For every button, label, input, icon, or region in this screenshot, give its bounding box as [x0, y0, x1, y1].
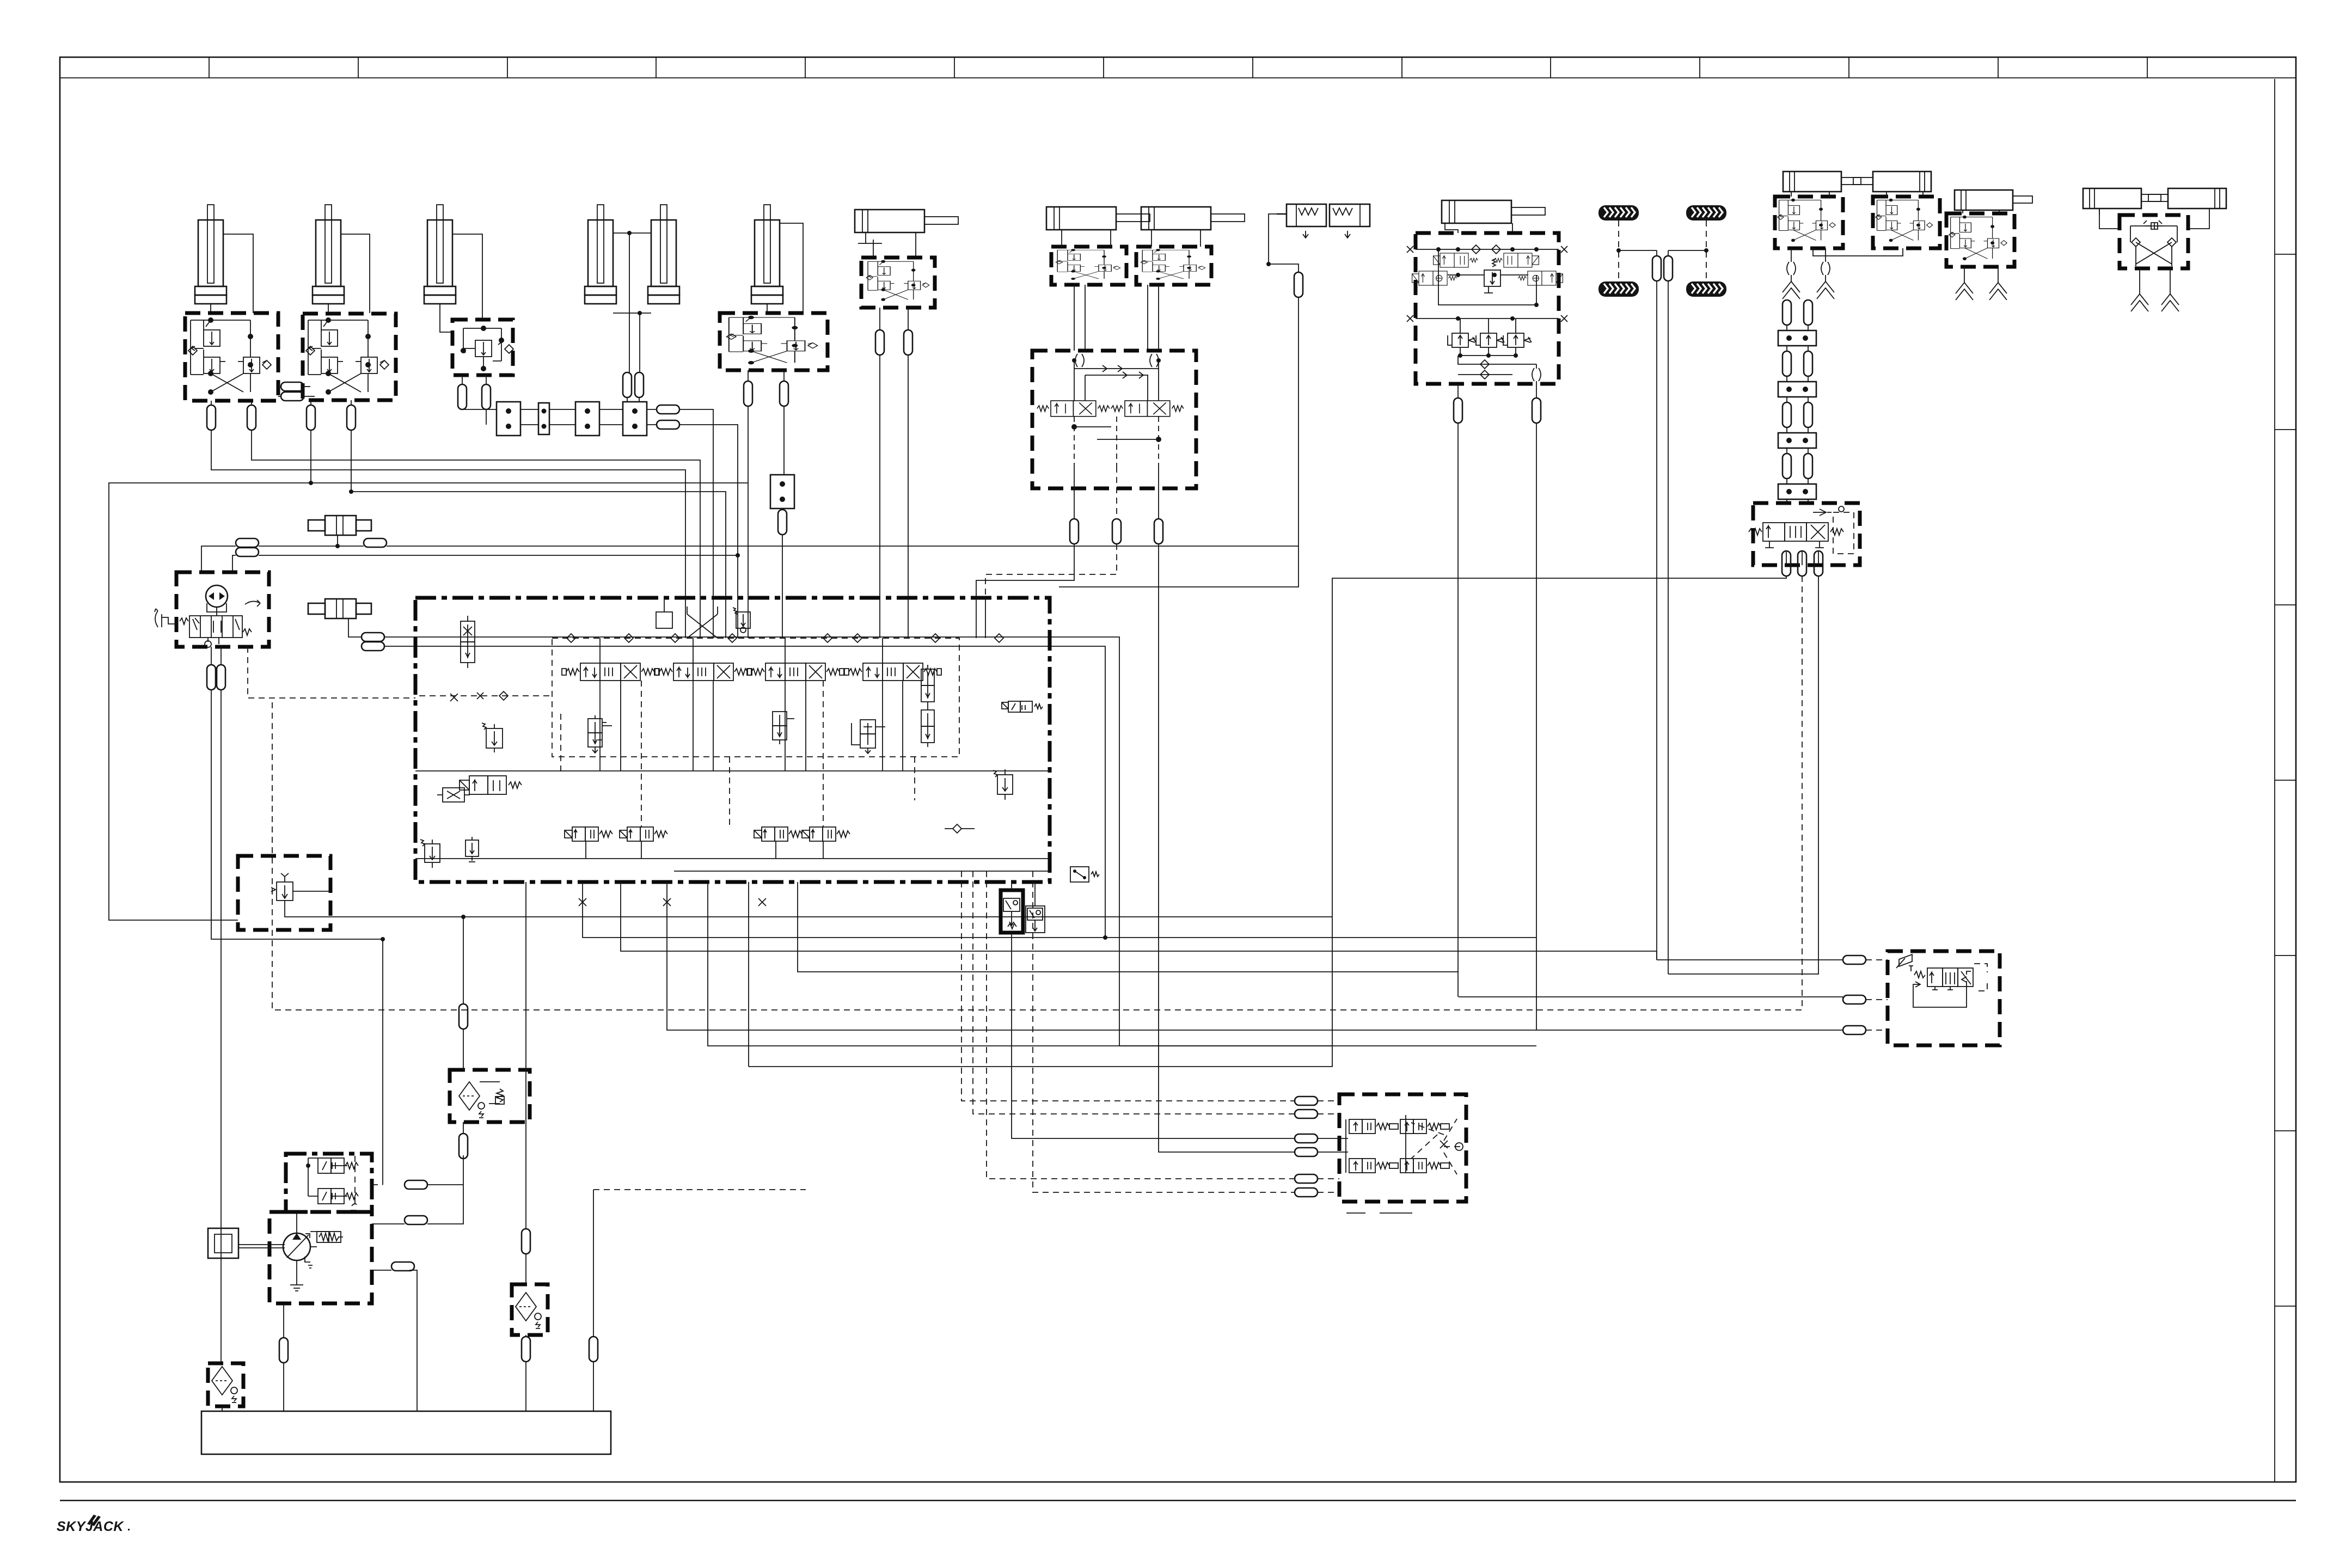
wire orbital drops: [211, 690, 383, 939]
valve block VB: [1946, 213, 2014, 267]
manifold top fittings: [656, 612, 672, 628]
pump unit B_PUMP: [269, 1212, 372, 1303]
wire B_SB drops: [1457, 423, 1459, 997]
pilot bus with check diamonds: [552, 638, 959, 639]
proportional relief left: [482, 723, 503, 752]
junction blocks row under C3/C4: [497, 402, 520, 436]
platform cylinder P1: [308, 516, 371, 535]
valve SB-2: [1494, 253, 1539, 267]
pressure reducer SB-B: [1476, 333, 1504, 347]
valve block VA2: [1873, 197, 1940, 248]
relief lower-left B: [465, 837, 479, 862]
wire SB top bus: [1407, 246, 1567, 253]
long wire runs: [583, 882, 1536, 938]
wire filter drop: [463, 1029, 464, 1070]
wire A cyl to valves: [1791, 192, 1792, 197]
main function valve MV1: [562, 663, 659, 681]
right zone strip: [2274, 79, 2275, 1482]
tire W3: [1598, 281, 1639, 297]
test/lowering valve box B_TEST: [286, 1154, 372, 1212]
wire P1 ports: [337, 535, 338, 546]
small solenoid valve SV-A: [565, 827, 612, 841]
tire W4: [1686, 281, 1726, 297]
wire brake feed: [1269, 214, 1298, 272]
hoses under VH1: [875, 330, 884, 355]
cylinder C3: [424, 205, 456, 304]
wire H1 ports: [873, 240, 874, 258]
inner pilot box: [552, 638, 959, 757]
wires H2/H3 to valves: [1061, 230, 1062, 247]
entry drops inside manifold: [685, 598, 686, 638]
sub element under MV2: [773, 712, 794, 744]
valve VC interior crossover: [2130, 220, 2177, 266]
reservoir tank: [201, 1411, 611, 1454]
wire right return: [593, 1189, 806, 1190]
wire emergency feed: [382, 939, 383, 1185]
flow control B_FLOW: [1888, 951, 2000, 1045]
hoses under V1: [207, 405, 216, 430]
hose brake line: [1294, 272, 1303, 297]
main function valve MV4: [844, 663, 941, 681]
orbital steering unit B_ORB: [176, 572, 269, 647]
hoses under orbital: [207, 665, 216, 690]
wire C5 ports: [780, 223, 803, 313]
transfer chain hoses/blocks: [1783, 300, 1791, 325]
brake cylinder BC1: [1277, 204, 1326, 238]
valve block V5 (dual counterbalance): [720, 313, 828, 370]
wire platform feed lines: [259, 546, 364, 547]
wire flow valve mid/bottom: [1459, 996, 1843, 997]
pilot wires to rotator: [961, 871, 1295, 1101]
axle lockout manifold B_AX: [1032, 351, 1196, 488]
hoses under B_SB: [1454, 398, 1462, 423]
valve block V2 (dual counterbalance): [303, 314, 396, 400]
hoses P2 lines: [362, 633, 384, 641]
valve block V1 (dual counterbalance): [185, 313, 278, 401]
cushion valve B_CUSH: [1001, 890, 1023, 933]
central manifold B_MAIN: [415, 598, 1050, 882]
wire emer out: [285, 901, 1332, 917]
hoses under B_J: [1782, 551, 1791, 576]
wires VH2/VH3 into axle manifold: [1074, 285, 1075, 351]
cylinder C4a: [585, 205, 616, 304]
valve block VH1 (dual counterbalance): [861, 258, 935, 308]
wire junction row links: [462, 409, 497, 410]
valve block V3 (single counterbalance): [452, 320, 513, 375]
wire B_AX right to rotator: [1159, 544, 1295, 1152]
hoses flow valve: [1843, 955, 1866, 964]
small solenoid valve SV-B: [620, 827, 667, 841]
hoses orbital lines: [236, 538, 259, 547]
relief SB center: [1484, 259, 1500, 293]
wire test to pump: [296, 1212, 297, 1233]
steer/brake manifold B_SB: [1416, 233, 1559, 384]
right side cartridge: [993, 769, 1013, 800]
rotator valve block B_ROT: [1339, 1094, 1466, 1202]
hoses under B_AX: [1070, 519, 1079, 544]
wire SB check rows: [1458, 356, 1536, 375]
pressure reducer SB-A: [1448, 333, 1476, 347]
return filter B_FILT3: [512, 1284, 548, 1335]
pressure reducer SB-C: [1503, 333, 1532, 347]
pressure switch right of manifold: [1070, 867, 1099, 882]
wire SB mid: [1448, 274, 1528, 275]
hoses wheel lines: [1656, 250, 1657, 256]
wire C4 links: [613, 232, 651, 234]
x marks on manifold exits: [579, 898, 586, 906]
cylinder A1: [1783, 171, 1861, 192]
sub element under MV4: [852, 720, 885, 754]
title strip: [60, 77, 2296, 78]
emergency lowering valve B_EMER: [238, 856, 330, 930]
wire wheel trunks: [1656, 281, 1657, 960]
wire pump case drain: [372, 1270, 391, 1271]
wire SB second bus: [1407, 315, 1567, 322]
valve block VH3: [1136, 247, 1211, 285]
wire pump suction: [283, 1303, 284, 1338]
flow divider left: [437, 788, 470, 802]
wire to flow valve top: [1657, 959, 1843, 960]
hoses between V1 and V2: [281, 382, 304, 391]
wire orbital to hoses: [201, 546, 236, 572]
cylinder A2: [1853, 171, 1931, 192]
manifold bus lines: [415, 770, 1050, 771]
valve SB-4: [1518, 271, 1563, 285]
platform cylinder P2: [308, 599, 371, 618]
cylinder C1r: [2083, 188, 2161, 209]
wire pump outlet right: [372, 1223, 405, 1224]
cylinder H4 (steer): [1442, 200, 1545, 223]
pilot dashed drop: [985, 544, 1117, 598]
brake cylinder BC2: [1330, 204, 1370, 238]
hoses under V2: [307, 405, 315, 430]
left chassis wire loop: [109, 483, 748, 920]
valve block VA1: [1775, 197, 1843, 248]
wire A link: [1813, 248, 1903, 256]
cylinder H1 (pothole): [855, 210, 958, 232]
pilot wire B_J mid port: [272, 576, 1802, 1010]
valve block VH2: [1051, 247, 1126, 285]
wires from JB hoses to manifold: [679, 409, 713, 598]
wires inside B_AX lower: [1074, 416, 1159, 467]
wire V5 drops to manifold: [748, 406, 749, 598]
hoses under V3: [458, 384, 467, 409]
wire C2 ports: [341, 234, 370, 313]
tire W1: [1598, 205, 1639, 220]
wire B_AX left drop: [976, 544, 1074, 598]
quick disconnects under VA1: [1787, 262, 1796, 275]
cylinder H3: [1141, 207, 1245, 230]
cylinder C2: [313, 205, 344, 304]
platform level master valve B_J: [1753, 503, 1860, 565]
cylinder C2r: [2148, 188, 2226, 209]
selector 3/2 left of manifold: [460, 776, 522, 794]
return filter B_FILT1: [450, 1070, 530, 1122]
valve SB-1: [1434, 253, 1478, 267]
cylinder C1: [195, 205, 226, 304]
solenoid valve right edge: [1002, 701, 1043, 712]
cylinder C5: [751, 205, 783, 304]
valve 4/2 left in B_AX: [1037, 401, 1110, 416]
hoses under C4: [623, 372, 632, 397]
wire filt3: [525, 882, 526, 1229]
wire P2 lines right: [384, 637, 1536, 1046]
hoses rotator inputs: [1295, 1097, 1318, 1105]
marks under rotator: [1346, 1212, 1412, 1214]
anchors under VC: [2131, 294, 2148, 311]
hoses under V5: [744, 381, 752, 406]
small solenoid valve SV-D: [802, 827, 850, 841]
valve SB-3: [1412, 271, 1457, 285]
wire B_J right port: [1668, 576, 1818, 974]
sub element under MV1: [588, 715, 612, 753]
valve block VC: [2120, 215, 2188, 268]
wire VH1 drops to manifold: [879, 355, 880, 598]
small solenoid valve SV-C: [754, 827, 802, 841]
manifold internal drops: [599, 681, 601, 771]
wire C1 ports: [223, 234, 253, 313]
tire W2: [1686, 205, 1726, 220]
dashed crossover left: [419, 695, 552, 696]
motor box M: [208, 1228, 238, 1258]
wire H4 ports: [1445, 223, 1458, 233]
main function valve MV2: [655, 663, 752, 681]
wires B_AX exits: [1074, 467, 1075, 488]
top-left vertical valve: [461, 616, 475, 668]
wire B_J left port: [749, 576, 1786, 1067]
hoses right of junction row: [657, 405, 679, 414]
anchors under VB: [1956, 283, 1973, 300]
anchors under VA1: [1783, 281, 1800, 299]
2/2 cartridge right pair: [921, 665, 934, 706]
wire axles: [1619, 220, 1706, 281]
relief lower-left A: [420, 840, 440, 868]
suction strainer B_FILT2: [208, 1363, 243, 1406]
SKYJACK logo: [57, 1515, 130, 1534]
cylinder C4b: [648, 205, 679, 304]
valve 4/2 right in B_AX: [1111, 401, 1184, 416]
main function valve MV3: [747, 663, 844, 681]
long wires from V1/V2 down to manifold: [211, 430, 685, 598]
wire SB reducers: [1458, 318, 1516, 356]
wire manifold right exits: [708, 882, 1332, 1046]
cylinder B1: [1955, 190, 2032, 210]
wire brake trunk: [1059, 297, 1298, 587]
cylinder H2: [1046, 207, 1150, 230]
junction block JB5: [783, 406, 785, 475]
wire C3 ports: [452, 234, 482, 320]
